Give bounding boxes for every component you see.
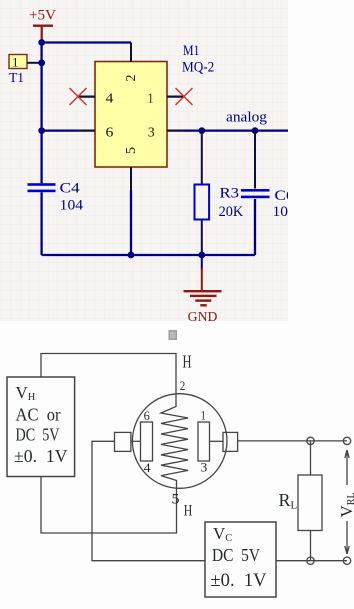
voltmeter arrow VRL bottom [345, 521, 349, 554]
electrode plate left [141, 422, 153, 461]
svg-text:GND: GND [188, 309, 218, 324]
source box VC [205, 522, 276, 597]
svg-text:analog: analog [226, 110, 268, 126]
pin tab right [223, 432, 238, 451]
wire VC right to terminals [276, 560, 347, 562]
component U1 body: M1 MQ-2 gas sensor [95, 43, 214, 167]
electrode plate right [198, 422, 210, 461]
lead left tab to electrode [131, 440, 141, 442]
image handle marker [169, 330, 178, 340]
wire bottom bus [42, 199, 255, 255]
svg-text:4: 4 [144, 460, 151, 475]
wire +5V to pin2 corner [42, 41, 131, 43]
no-connect X pin 4 [70, 88, 87, 105]
svg-text:C6: C6 [275, 188, 295, 204]
svg-text:VRL: VRL [337, 492, 354, 517]
junction top [38, 39, 45, 46]
svg-text:RL: RL [279, 490, 298, 512]
connector T1 [9, 55, 42, 86]
svg-text:C4: C4 [60, 180, 81, 196]
junction C6 top [252, 127, 259, 134]
svg-text:M1: M1 [183, 43, 200, 59]
svg-text:+5V: +5V [29, 8, 57, 24]
svg-text:MQ-2: MQ-2 [182, 60, 214, 76]
junction pin5 bottom [128, 252, 135, 259]
no-connect X pin 1 [176, 88, 193, 105]
svg-text:±0. 1V: ±0. 1V [211, 570, 267, 591]
wire pin5 to bottom bus [130, 190, 132, 255]
svg-text:R3: R3 [220, 186, 240, 202]
svg-text:5: 5 [172, 492, 180, 508]
capacitor C4 [28, 180, 84, 213]
sensor envelope circle [132, 394, 227, 489]
svg-text:1: 1 [201, 408, 206, 423]
resistor R3 [195, 131, 244, 255]
terminal top left [307, 437, 314, 444]
schematic sheet background [0, 0, 288, 321]
lead RL top [310, 441, 312, 475]
svg-text:2: 2 [124, 75, 139, 82]
power +5V [29, 8, 57, 43]
svg-text:3: 3 [148, 126, 155, 141]
svg-text:H: H [183, 352, 192, 372]
svg-text:104: 104 [60, 198, 84, 214]
capacitor C6 [241, 131, 297, 255]
svg-text:DC 5V: DC 5V [212, 545, 260, 565]
pin 2 [124, 43, 139, 82]
svg-text:104: 104 [273, 204, 297, 220]
resistor RL body [298, 475, 322, 531]
pin 6 [78, 126, 113, 141]
source box VH [7, 377, 75, 477]
terminal top right [343, 437, 350, 444]
lead electrode to right tab [210, 440, 224, 442]
junction GND [198, 252, 205, 259]
svg-text:±0. 1V: ±0. 1V [14, 446, 68, 466]
pin 4 [78, 92, 113, 107]
pin 1 [148, 92, 184, 107]
voltmeter arrow VRL top [345, 450, 349, 485]
heater zigzag [161, 394, 188, 487]
junction pin6 bus [38, 127, 45, 134]
svg-text:AC or: AC or [16, 405, 61, 425]
lead RL bottom [310, 531, 312, 561]
pin 5 [124, 147, 139, 196]
svg-text:H: H [184, 503, 193, 520]
wire analog net [184, 129, 288, 131]
terminal bottom left [307, 557, 314, 564]
wire VH top to pin2 H [41, 354, 176, 395]
svg-text:5: 5 [124, 147, 139, 154]
wire left vertical bus [40, 43, 42, 256]
svg-text:T1: T1 [9, 70, 24, 85]
wire pin1 side to terminals [238, 440, 348, 442]
terminal bottom right [343, 557, 350, 564]
svg-text:3: 3 [201, 460, 208, 475]
svg-text:6: 6 [106, 126, 114, 141]
wire VH bottom to pin5 H [41, 477, 177, 534]
junction T1 [38, 59, 45, 66]
pin tab left [115, 432, 131, 451]
svg-text:6: 6 [144, 408, 151, 423]
svg-text:1: 1 [12, 55, 19, 70]
ground GND [184, 255, 222, 324]
svg-text:1: 1 [148, 92, 154, 107]
junction R3 top [198, 127, 205, 134]
pin 3 [148, 126, 184, 141]
wire pin6 to VC left [92, 441, 205, 560]
svg-text:20K: 20K [219, 204, 244, 220]
svg-text:DC 5V: DC 5V [16, 425, 60, 445]
wire pin6 to left bus [42, 129, 78, 131]
svg-text:4: 4 [106, 92, 114, 107]
svg-text:2: 2 [180, 378, 186, 393]
